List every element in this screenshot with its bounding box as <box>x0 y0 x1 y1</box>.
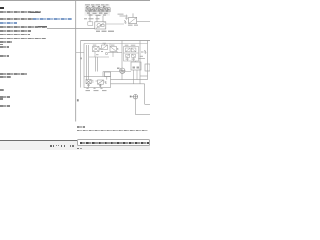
figure caption <box>77 126 85 127</box>
valve block B <box>124 47 139 62</box>
tooltip box <box>77 139 150 146</box>
top border wire <box>81 40 151 42</box>
cluster noise <box>87 6 108 16</box>
wire bundle <box>84 44 97 77</box>
faint labels right of cluster <box>118 14 129 19</box>
top fragment: label row 2 <box>84 18 100 19</box>
column divider line <box>75 1 77 122</box>
schematic artwork <box>0 0 150 150</box>
tank marks under box C <box>86 88 103 89</box>
labels under pump box <box>96 31 114 32</box>
gauge circle 1 <box>120 68 125 73</box>
pump box with diagonal <box>95 22 106 29</box>
pilot line <box>126 15 128 21</box>
block B labels <box>125 45 144 60</box>
valve cluster A <box>89 44 122 58</box>
mid horizontal wire <box>103 72 131 77</box>
spring <box>124 21 126 24</box>
footer bar <box>0 141 150 150</box>
footer separator <box>0 139 150 142</box>
relief valve <box>129 13 137 23</box>
wire right from pump box <box>106 23 124 25</box>
gauge circle 2 <box>132 95 138 99</box>
window top edge <box>0 0 150 2</box>
cluster veil <box>85 4 111 16</box>
left border wire <box>80 41 82 88</box>
B2 drops <box>134 61 138 84</box>
connector from divider <box>76 52 84 54</box>
labels under relief valve <box>128 25 138 26</box>
marks under tooltip <box>77 148 79 150</box>
main pressure wire vertical <box>121 41 123 80</box>
spring S <box>144 51 146 54</box>
left column text <box>0 7 4 9</box>
lower box C <box>84 77 111 88</box>
lower-right wires <box>111 76 151 104</box>
top fragment: label row <box>85 4 109 5</box>
top fragment: valve row <box>85 7 110 12</box>
wire to right edge <box>137 21 150 23</box>
small box <box>88 22 93 26</box>
drain wires <box>136 99 151 115</box>
right vertical wires <box>139 41 151 85</box>
cluster A labels <box>93 43 115 55</box>
callout tick <box>80 58 82 60</box>
small valve on box top <box>105 72 111 77</box>
labels under box C <box>86 90 107 91</box>
second horizontal wire <box>84 43 148 45</box>
drops from valve row <box>90 14 103 22</box>
footer icons <box>50 145 51 147</box>
inner box B2 <box>131 62 141 70</box>
callout 2 <box>77 99 79 101</box>
leader rule <box>47 28 95 30</box>
